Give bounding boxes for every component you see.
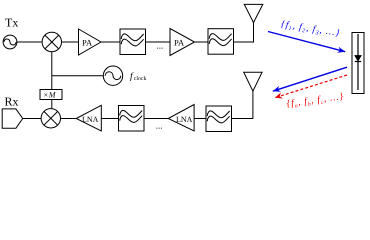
wire multiplier to mixer M2 <box>51 100 53 109</box>
wire PA1 to filter F1 <box>101 41 120 43</box>
ellipsis dots (Tx chain) <box>157 41 164 51</box>
amplifier PA1 <box>79 29 102 55</box>
svg-text:PA: PA <box>82 37 93 47</box>
wire F3 to LNA2 <box>144 118 168 120</box>
port Rx (pentagon) <box>2 109 23 128</box>
svg-text:clock: clock <box>134 75 147 82</box>
svg-text:{fa, fb, fc, ...}: {fa, fb, fc, ...} <box>286 92 345 110</box>
label Rx <box>5 95 19 109</box>
diode D1 inside tag <box>355 34 361 90</box>
wire F1 to PA2 <box>146 41 171 43</box>
label blue f1 f2 f3 <box>280 20 341 40</box>
source V1 (Tx sine source) <box>3 35 17 49</box>
arrow backscatter (red dashed, tag to Rx antenna) <box>275 75 347 98</box>
svg-text:LNA: LNA <box>82 115 99 124</box>
svg-text:PA: PA <box>174 37 185 47</box>
mixer M2 <box>41 109 60 128</box>
filter F2 <box>208 29 234 55</box>
wire LNA2 to filter F4 <box>194 118 206 120</box>
antenna ANT2 (Rx) <box>244 72 262 91</box>
oscillator f_clock <box>103 66 122 85</box>
svg-text:LNA: LNA <box>176 115 193 124</box>
wire F2 to Tx antenna <box>234 23 254 42</box>
label Tx <box>5 15 18 29</box>
svg-text:Tx: Tx <box>5 15 18 29</box>
tag box (rectifier) <box>352 33 364 94</box>
antenna ANT1 (Tx) <box>244 4 262 22</box>
wire mixer M2 to LNA1 <box>61 118 77 120</box>
arrow reflected (blue, tag to Rx antenna) <box>273 67 347 91</box>
filter F3 <box>119 106 145 132</box>
amplifier LNA2 (points left) <box>168 105 194 132</box>
svg-text:...: ... <box>156 121 163 131</box>
wire mixer M1 down to multiplier <box>51 52 53 90</box>
wire LNA1 to filter F3 <box>101 118 118 120</box>
filter F1 <box>120 29 146 55</box>
svg-text:...: ... <box>157 41 164 51</box>
svg-text:Rx: Rx <box>5 95 19 109</box>
amplifier LNA1 (points left) <box>76 105 101 131</box>
wire source to mixer <box>17 41 42 43</box>
multiplier xM <box>40 90 62 100</box>
arrow downlink (blue, Tx antenna to tag) <box>268 32 345 52</box>
wire PA2 to filter F2 <box>195 41 209 43</box>
wire Rx port to mixer M2 <box>23 118 41 120</box>
svg-text:×M: ×M <box>44 90 57 99</box>
amplifier PA2 <box>170 29 195 56</box>
label f_clock <box>130 72 146 82</box>
filter F4 <box>206 106 232 132</box>
wire F4 to Rx antenna <box>232 91 253 118</box>
ellipsis dots (Rx chain) <box>156 121 163 131</box>
mixer M1 <box>42 32 61 51</box>
wire mixer to PA1 <box>62 41 79 43</box>
wire junction to clock oscillator <box>52 75 104 77</box>
label red fa fb fc <box>286 92 345 110</box>
